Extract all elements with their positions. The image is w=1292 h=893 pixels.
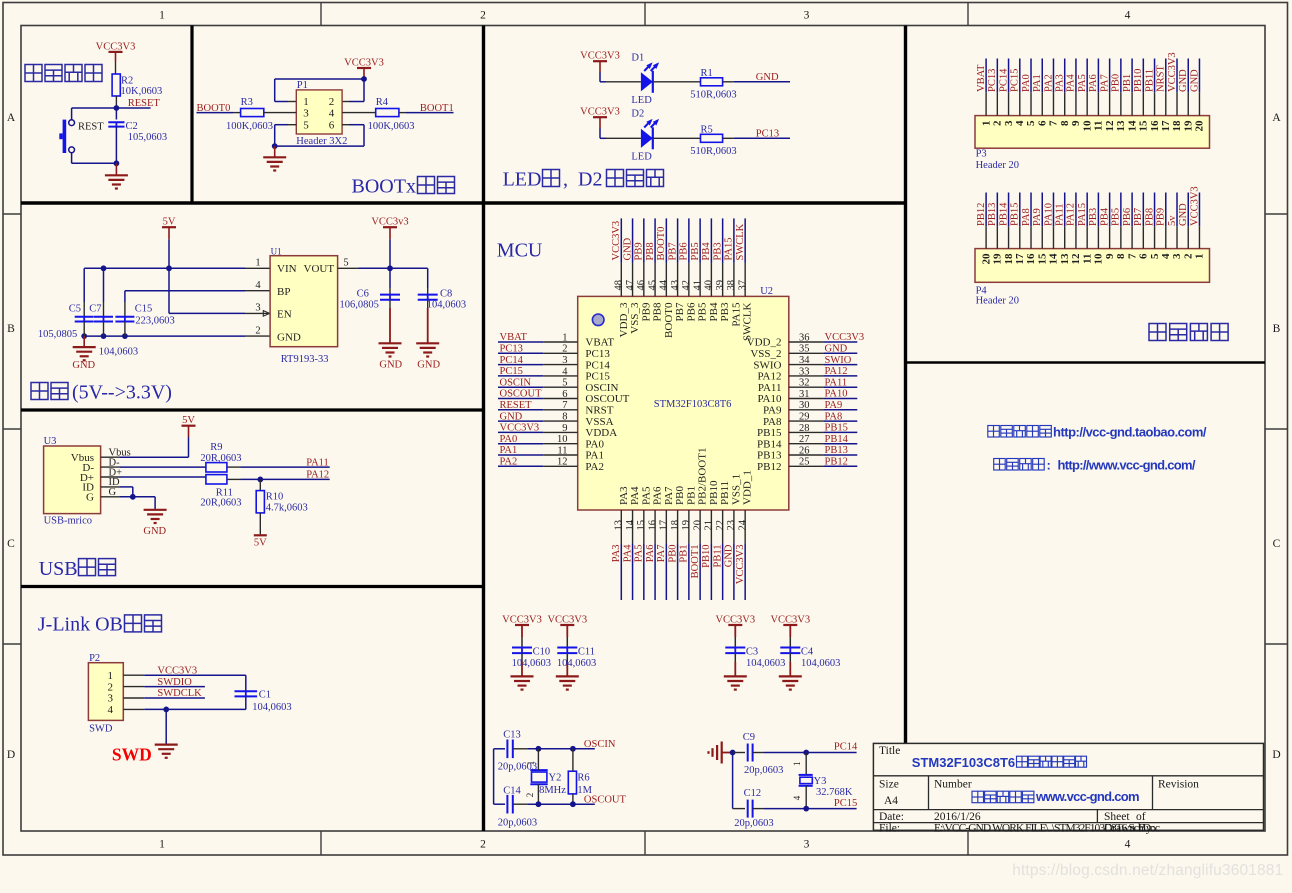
svg-text:2016/1/26: 2016/1/26 [934, 811, 981, 823]
svg-text:PA8: PA8 [763, 416, 782, 428]
svg-text:PA11: PA11 [758, 382, 782, 394]
svg-text:VCC3V3: VCC3V3 [580, 51, 620, 62]
svg-text:C15: C15 [135, 304, 153, 315]
svg-text:PB12: PB12 [976, 203, 987, 226]
svg-text:PA8: PA8 [1021, 208, 1032, 226]
svg-text:15: 15 [1138, 120, 1150, 132]
svg-text:11: 11 [1093, 121, 1105, 131]
svg-text:100K,0603: 100K,0603 [226, 121, 273, 132]
svg-text:Header 20: Header 20 [976, 160, 1019, 171]
svg-text:PB11: PB11 [719, 481, 731, 505]
svg-text:2: 2 [525, 793, 535, 798]
svg-text:14: 14 [625, 519, 636, 530]
svg-text:4: 4 [108, 704, 114, 716]
svg-text:510R,0603: 510R,0603 [690, 90, 736, 101]
svg-text:VCC3V3: VCC3V3 [715, 614, 755, 625]
svg-text:EN: EN [277, 309, 292, 321]
svg-text:C5: C5 [69, 304, 81, 315]
svg-text:PA8: PA8 [825, 411, 843, 422]
svg-text:C14: C14 [503, 785, 521, 796]
svg-text:PA7: PA7 [656, 545, 667, 563]
svg-text:USB: USB [39, 558, 78, 580]
svg-text:2: 2 [329, 96, 335, 108]
svg-text:PB1: PB1 [679, 545, 690, 563]
svg-text:VDD_3: VDD_3 [618, 302, 630, 337]
svg-text:16: 16 [1025, 253, 1037, 265]
svg-text:PA10: PA10 [757, 393, 782, 405]
svg-text:C9: C9 [743, 732, 755, 743]
svg-text:VBAT: VBAT [500, 332, 528, 343]
svg-text:PB1: PB1 [1122, 74, 1133, 92]
svg-text:R10: R10 [266, 492, 284, 503]
svg-text:PA12: PA12 [825, 366, 848, 377]
svg-text:PA4: PA4 [629, 486, 641, 505]
svg-text:VSS_3: VSS_3 [629, 302, 641, 334]
svg-text:R4: R4 [376, 97, 389, 108]
svg-text:17: 17 [659, 520, 670, 531]
svg-text:20: 20 [1194, 120, 1206, 132]
svg-text:VDDA: VDDA [585, 427, 617, 439]
svg-text:6: 6 [329, 119, 335, 131]
svg-text:U2: U2 [760, 286, 773, 297]
svg-text:VOUT: VOUT [304, 263, 335, 275]
svg-text:C: C [1273, 538, 1281, 550]
svg-text:PA7: PA7 [1099, 74, 1110, 92]
svg-text:1: 1 [303, 96, 309, 108]
svg-text:PA3: PA3 [618, 486, 630, 505]
svg-text:20: 20 [692, 520, 703, 531]
svg-text:R9: R9 [210, 442, 222, 453]
svg-text:18: 18 [670, 520, 681, 531]
svg-text:PB9: PB9 [640, 302, 652, 321]
svg-text:PA0: PA0 [1021, 74, 1032, 92]
svg-text:20R,0603: 20R,0603 [200, 453, 241, 464]
svg-text:104,0603: 104,0603 [801, 658, 840, 669]
svg-text:BP: BP [277, 286, 290, 298]
svg-text:223,0603: 223,0603 [135, 315, 174, 326]
svg-text:3: 3 [108, 693, 114, 705]
svg-text:16: 16 [1149, 120, 1161, 132]
svg-text:PC13: PC13 [756, 129, 779, 140]
svg-text:OSCIN: OSCIN [500, 377, 532, 388]
svg-text:21: 21 [704, 520, 715, 531]
svg-text:Header 3X2: Header 3X2 [296, 136, 347, 147]
svg-text:LED: LED [503, 169, 542, 191]
svg-text:PB13: PB13 [825, 445, 848, 456]
svg-text:12: 12 [557, 457, 568, 468]
svg-text:Y3: Y3 [814, 776, 827, 787]
svg-text:C: C [7, 538, 15, 550]
svg-text:PB0: PB0 [1111, 74, 1122, 92]
svg-text:3: 3 [1003, 120, 1015, 126]
svg-text:GND: GND [825, 344, 848, 355]
svg-text:PB7: PB7 [1133, 208, 1144, 226]
svg-text:PC14: PC14 [998, 68, 1009, 92]
svg-text:26: 26 [799, 445, 810, 456]
svg-text:PA10: PA10 [1043, 203, 1054, 226]
svg-text:32: 32 [799, 378, 810, 389]
svg-text:PB12: PB12 [825, 457, 848, 468]
svg-text:http://vcc-gnd.taobao.com/: http://vcc-gnd.taobao.com/ [1053, 425, 1207, 440]
svg-text:J-Link OB: J-Link OB [38, 614, 123, 636]
svg-text:104,0603: 104,0603 [512, 658, 551, 669]
svg-text:PB8: PB8 [1144, 208, 1155, 226]
svg-text:OSCOUT: OSCOUT [585, 393, 629, 405]
svg-text:VCC3V3: VCC3V3 [735, 545, 746, 585]
svg-text:VSS_2: VSS_2 [750, 348, 781, 360]
svg-text:B: B [7, 323, 15, 335]
svg-text:PA0: PA0 [585, 438, 604, 450]
svg-text:5: 5 [1149, 253, 1161, 259]
svg-text:10: 10 [557, 434, 568, 445]
svg-text:of: of [1136, 811, 1146, 823]
svg-text:6: 6 [562, 389, 567, 400]
svg-text:12: 12 [1070, 253, 1082, 265]
svg-text:STM32F103C8T6: STM32F103C8T6 [654, 399, 732, 410]
svg-text:12: 12 [1104, 120, 1116, 132]
svg-text:48: 48 [614, 280, 625, 291]
svg-text:P2: P2 [89, 653, 100, 664]
svg-text:R6: R6 [577, 773, 589, 784]
svg-text:15: 15 [636, 520, 647, 531]
svg-text:PB4: PB4 [708, 302, 720, 321]
svg-text:4: 4 [792, 795, 802, 800]
svg-text:PB2/BOOT1: PB2/BOOT1 [697, 448, 709, 505]
svg-text:STM32F103C8T6: STM32F103C8T6 [912, 755, 1015, 770]
svg-text:5: 5 [562, 378, 567, 389]
svg-text:VSSA: VSSA [585, 416, 613, 428]
svg-text:LED: LED [631, 151, 652, 162]
svg-text:PC14: PC14 [500, 355, 524, 366]
svg-text:Sheet: Sheet [1104, 811, 1130, 823]
svg-text:14: 14 [1126, 120, 1138, 132]
svg-text:PA6: PA6 [1088, 74, 1099, 92]
svg-text:Y2: Y2 [549, 773, 562, 784]
svg-text:SWD: SWD [112, 745, 152, 765]
svg-text:D2: D2 [631, 109, 644, 120]
svg-text:43: 43 [670, 280, 681, 291]
svg-text:33: 33 [799, 366, 810, 377]
svg-text:MCU: MCU [497, 240, 543, 262]
svg-text:6: 6 [1036, 120, 1048, 126]
svg-text:VCC3V3: VCC3V3 [825, 332, 865, 343]
svg-text:4: 4 [329, 108, 335, 120]
svg-text:PB10: PB10 [701, 545, 712, 568]
svg-text:R3: R3 [241, 97, 253, 108]
svg-text:PB15: PB15 [757, 427, 782, 439]
svg-text:PB11: PB11 [1144, 69, 1155, 92]
svg-text:R5: R5 [701, 124, 713, 135]
svg-text:17: 17 [1160, 120, 1172, 132]
svg-text:PA5: PA5 [634, 545, 645, 563]
svg-text:Header 20: Header 20 [976, 296, 1019, 307]
svg-text:PA2: PA2 [500, 457, 518, 468]
svg-text:PB14: PB14 [757, 438, 782, 450]
svg-text:A: A [1272, 112, 1281, 124]
svg-text:11: 11 [1081, 254, 1093, 264]
svg-text:PB13: PB13 [757, 450, 782, 462]
svg-text:PA5: PA5 [640, 486, 652, 505]
svg-text:PA3: PA3 [611, 545, 622, 563]
svg-text:PB15: PB15 [825, 423, 848, 434]
svg-text:NRST: NRST [1156, 65, 1167, 92]
svg-text:5V: 5V [163, 217, 176, 228]
svg-text:PA11: PA11 [1055, 203, 1066, 226]
svg-text:PB3: PB3 [719, 302, 731, 321]
svg-text:C10: C10 [533, 647, 551, 658]
svg-text:SWIO: SWIO [753, 359, 781, 371]
svg-text:C2: C2 [126, 121, 138, 132]
svg-text:7: 7 [562, 400, 567, 411]
svg-text:SWCLK: SWCLK [742, 302, 754, 341]
svg-text:44: 44 [659, 279, 670, 290]
svg-text:20p,0603: 20p,0603 [498, 818, 537, 829]
svg-text:Number: Number [934, 778, 972, 790]
svg-text:45: 45 [647, 280, 658, 291]
svg-text:G: G [86, 492, 94, 504]
svg-text:LED: LED [631, 95, 652, 106]
svg-text:3: 3 [804, 10, 810, 22]
svg-text:11: 11 [557, 445, 567, 456]
svg-text:PB15: PB15 [1010, 203, 1021, 226]
svg-text:C4: C4 [801, 647, 814, 658]
svg-text:PA1: PA1 [500, 445, 518, 456]
svg-text:PB6: PB6 [1122, 208, 1133, 226]
svg-text:C13: C13 [503, 729, 521, 740]
svg-text:SWCLK: SWCLK [735, 223, 746, 260]
svg-text:VCC3V3: VCC3V3 [580, 107, 620, 118]
svg-text:18: 18 [1003, 253, 1015, 265]
svg-text:PA6: PA6 [645, 545, 656, 563]
svg-text:16: 16 [647, 520, 658, 531]
svg-text:PA15: PA15 [730, 302, 742, 327]
svg-text:1: 1 [980, 121, 992, 127]
svg-text:VCC3V3: VCC3V3 [611, 221, 622, 261]
svg-text:C3: C3 [746, 647, 758, 658]
svg-text:25: 25 [799, 457, 810, 468]
svg-text:7: 7 [1048, 120, 1060, 126]
svg-text::: : [1047, 458, 1051, 473]
svg-text:GND: GND [622, 237, 633, 260]
svg-text:5: 5 [343, 258, 348, 269]
svg-text:VBAT: VBAT [585, 337, 614, 349]
svg-text:BOOT0: BOOT0 [663, 302, 675, 338]
svg-text:PA4: PA4 [1066, 74, 1077, 92]
svg-text:20R,0603: 20R,0603 [200, 497, 241, 508]
svg-text:1: 1 [159, 839, 165, 851]
svg-text:A: A [7, 112, 16, 124]
svg-text:PA7: PA7 [663, 486, 675, 505]
svg-text:https://blog.csdn.net/zhanglif: https://blog.csdn.net/zhanglifu3601881 [1012, 862, 1283, 879]
svg-text:2: 2 [562, 344, 567, 355]
svg-text:34: 34 [799, 355, 810, 366]
svg-text:GND: GND [1189, 69, 1200, 92]
svg-text:19: 19 [1182, 120, 1194, 132]
svg-text:PB0: PB0 [674, 486, 686, 505]
svg-text:PB14: PB14 [998, 202, 1009, 226]
svg-text:GND: GND [1178, 69, 1189, 92]
svg-text:27: 27 [799, 434, 810, 445]
svg-text:4.7k,0603: 4.7k,0603 [266, 502, 308, 513]
svg-text:SWIO: SWIO [825, 355, 852, 366]
svg-text:PC13: PC13 [500, 344, 523, 355]
svg-text:GND: GND [277, 331, 301, 343]
svg-text:PB7: PB7 [674, 302, 686, 321]
svg-text:PB10: PB10 [708, 480, 720, 505]
svg-text:B: B [1273, 323, 1281, 335]
svg-text:2: 2 [1182, 253, 1194, 259]
svg-text:PB7: PB7 [667, 242, 678, 260]
svg-text:3: 3 [1171, 253, 1183, 259]
svg-text:PC15: PC15 [500, 366, 523, 377]
svg-text:510R,0603: 510R,0603 [690, 146, 736, 157]
svg-text:13: 13 [614, 520, 625, 531]
svg-text:3: 3 [255, 303, 260, 314]
svg-text:VCC3V3: VCC3V3 [547, 614, 587, 625]
svg-text:106,0805: 106,0805 [340, 300, 379, 311]
svg-text:SWD: SWD [89, 724, 113, 735]
svg-text:USB-mrico: USB-mrico [44, 516, 92, 527]
svg-text:PC15: PC15 [834, 798, 857, 809]
svg-text:PA3: PA3 [1055, 74, 1066, 92]
svg-text:PC13: PC13 [987, 69, 998, 92]
svg-text:5: 5 [1025, 120, 1037, 126]
svg-text:File:: File: [879, 823, 900, 835]
svg-text:PB8: PB8 [645, 242, 656, 260]
svg-text:PB0: PB0 [667, 545, 678, 563]
svg-text:D: D [7, 749, 15, 761]
svg-text:D: D [1272, 749, 1280, 761]
svg-text:R1: R1 [701, 68, 713, 79]
svg-text:9: 9 [1070, 120, 1082, 126]
svg-text:VDD_1: VDD_1 [742, 470, 754, 505]
svg-text:D2: D2 [578, 169, 602, 191]
svg-text:1: 1 [159, 10, 165, 22]
svg-text:104,0603: 104,0603 [252, 702, 291, 713]
svg-text:104,0603: 104,0603 [746, 658, 785, 669]
svg-text:30: 30 [799, 400, 810, 411]
svg-text:1: 1 [108, 670, 114, 682]
svg-text:,: , [563, 169, 568, 191]
svg-text:14: 14 [1048, 253, 1060, 265]
svg-text:PC15: PC15 [585, 371, 610, 383]
svg-text:PB13: PB13 [987, 203, 998, 226]
svg-text:RESET: RESET [500, 400, 533, 411]
svg-text:1: 1 [792, 762, 802, 767]
svg-text:PB10: PB10 [1133, 69, 1144, 92]
svg-text:GND: GND [724, 544, 735, 567]
svg-text:100K,0603: 100K,0603 [368, 121, 415, 132]
svg-text:PB12: PB12 [757, 461, 781, 473]
svg-text:22: 22 [715, 520, 726, 531]
svg-text:24: 24 [737, 519, 748, 530]
svg-text:4: 4 [1125, 10, 1131, 22]
svg-text:PB8: PB8 [652, 302, 664, 321]
svg-text:20p,0603: 20p,0603 [744, 765, 783, 776]
svg-text:PB11: PB11 [712, 545, 723, 568]
svg-text:18: 18 [1171, 120, 1183, 132]
svg-text:2: 2 [480, 839, 486, 851]
svg-text:8: 8 [562, 412, 567, 423]
svg-text:2: 2 [992, 120, 1004, 126]
svg-text:40: 40 [704, 280, 715, 291]
svg-text:C11: C11 [578, 647, 595, 658]
svg-text:42: 42 [681, 280, 692, 291]
svg-text:PC15: PC15 [1010, 69, 1021, 92]
svg-text:PA9: PA9 [825, 400, 843, 411]
svg-text:VSS_1: VSS_1 [730, 474, 742, 505]
svg-text:OSCOUT: OSCOUT [584, 795, 627, 806]
svg-text:4: 4 [1160, 253, 1172, 259]
svg-text:U3: U3 [44, 436, 57, 447]
svg-text:2: 2 [480, 10, 486, 22]
svg-text:PA12: PA12 [306, 470, 329, 481]
svg-text:VBAT: VBAT [976, 64, 987, 92]
svg-text:SWDIO: SWDIO [157, 677, 192, 688]
svg-text:PA10: PA10 [825, 389, 848, 400]
svg-text:BOOT1: BOOT1 [420, 103, 454, 114]
svg-text:GND: GND [379, 360, 402, 371]
svg-text:BOOT1: BOOT1 [690, 545, 701, 579]
svg-text:D1: D1 [631, 53, 644, 64]
svg-text:9: 9 [562, 423, 567, 434]
svg-text:Revision: Revision [1158, 778, 1199, 790]
svg-text:www.vcc-gnd.com: www.vcc-gnd.com [1035, 789, 1140, 804]
svg-text:36: 36 [799, 332, 810, 343]
svg-text:1: 1 [562, 332, 567, 343]
svg-text:20: 20 [980, 253, 992, 265]
svg-text:PA12: PA12 [1066, 203, 1077, 226]
svg-text:23: 23 [726, 520, 737, 531]
svg-text:4: 4 [1125, 839, 1131, 851]
svg-text:PB6: PB6 [679, 242, 690, 260]
svg-text:19: 19 [681, 520, 692, 531]
svg-text:31: 31 [799, 389, 810, 400]
svg-text:VCC3V3: VCC3V3 [96, 41, 136, 52]
svg-text:PA15: PA15 [1077, 203, 1088, 226]
svg-text:C8: C8 [440, 288, 452, 299]
svg-text:PB3: PB3 [712, 242, 723, 260]
svg-text:9: 9 [1104, 253, 1116, 259]
svg-text:46: 46 [636, 280, 647, 291]
svg-text:Date:: Date: [879, 811, 904, 823]
svg-text:PB1: PB1 [685, 486, 697, 505]
svg-text:2: 2 [108, 681, 114, 693]
svg-text:105,0603: 105,0603 [128, 132, 167, 143]
svg-text:REST: REST [78, 121, 104, 132]
svg-text:VCC3V3: VCC3V3 [1167, 52, 1178, 92]
svg-text:4: 4 [1014, 120, 1026, 126]
svg-text:http://www.vcc-gnd.com/: http://www.vcc-gnd.com/ [1058, 458, 1196, 473]
svg-text:PA6: PA6 [652, 486, 664, 505]
svg-text:PC13: PC13 [585, 348, 610, 360]
svg-text:5V: 5V [254, 537, 267, 548]
svg-text:39: 39 [715, 280, 726, 291]
svg-text:6: 6 [1138, 253, 1150, 259]
svg-text:PB4: PB4 [1099, 207, 1110, 226]
svg-text:PA9: PA9 [1032, 208, 1043, 226]
svg-text:GND: GND [1178, 203, 1189, 226]
svg-text:104,0603: 104,0603 [427, 300, 466, 311]
svg-text:PB5: PB5 [697, 302, 709, 321]
svg-text:104,0603: 104,0603 [99, 347, 138, 358]
svg-text:20p,0603: 20p,0603 [734, 818, 773, 829]
svg-text:10K,0603: 10K,0603 [121, 86, 163, 97]
svg-text:Size: Size [879, 778, 899, 790]
svg-text:GND: GND [72, 360, 95, 371]
svg-text:1: 1 [255, 258, 260, 269]
svg-text:P3: P3 [976, 149, 987, 160]
